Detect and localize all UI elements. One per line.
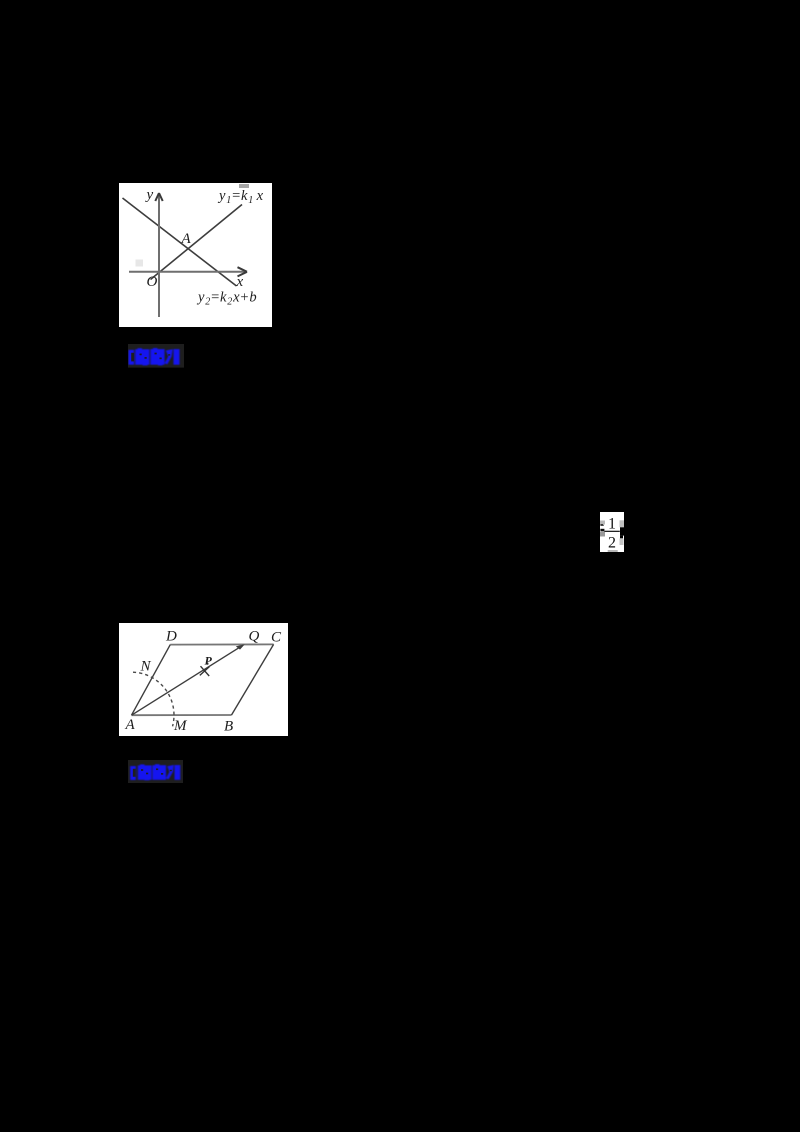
svg-text:2: 2 [608,534,616,551]
ray AQ [132,645,244,715]
side AD [132,645,171,716]
y axis [158,195,160,318]
figure 2: parallelogram ABCD with construction [119,623,288,736]
side AB [132,714,232,716]
side DC [170,643,273,645]
line y1=k1x (increasing) [151,205,243,280]
blue tag 1 [128,344,184,368]
faint smudge left of y axis [136,260,144,267]
fraction bar [604,530,619,531]
svg-text:D: D [165,629,177,645]
svg-text:Q: Q [249,629,260,645]
grey smudges [600,520,605,524]
side BC [232,644,274,715]
svg-text:A: A [181,231,192,247]
svg-text:y: y [145,187,154,203]
dot near P [206,662,208,664]
svg-text:C: C [271,630,282,646]
svg-text:y2=k2x+b: y2=k2x+b [196,290,257,308]
svg-text:A: A [125,717,136,733]
svg-text:M: M [173,718,188,734]
equals remnant at left edge [600,524,604,526]
line y2=k2x+b (decreasing) [123,198,237,286]
y axis arrowhead [155,193,162,201]
fraction 1/2 [600,512,624,552]
x axis arrowhead [238,267,248,276]
svg-text:x: x [236,274,244,290]
dashed arc centered at A [133,672,174,726]
cross mark at P [200,666,210,676]
x axis [129,271,245,273]
svg-text:P: P [205,654,213,668]
grey smudge top right [239,184,249,188]
blue tag 2 [128,760,183,783]
svg-text:y1=k1x: y1=k1x [217,188,264,206]
svg-text:1: 1 [608,515,616,532]
black notch right [620,527,624,535]
svg-text:N: N [140,659,152,675]
figure 1: coordinate plane with lines y1=k1x and y2=k2x+b [119,183,272,327]
arrowhead at Q [236,644,245,649]
svg-text:O: O [147,274,158,290]
svg-text:B: B [224,719,233,735]
